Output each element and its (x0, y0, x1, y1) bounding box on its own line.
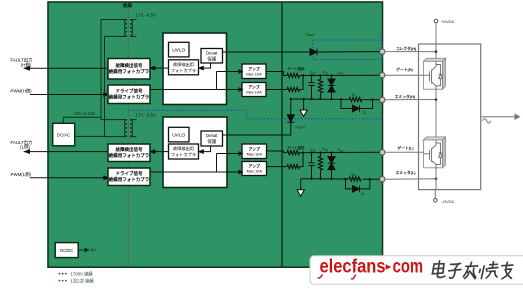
svg-text:15V or 24V: 15V or 24V (75, 111, 96, 116)
wire: DC/AC output right to rail B (75, 135, 105, 137)
capacitor Cge (H) (308, 76, 314, 100)
gate driver U2 (L side) (163, 117, 227, 188)
svg-text:絶縁: 絶縁 (123, 2, 133, 9)
diode DE bypass (H) (341, 99, 373, 112)
watermark swash tails (318, 275, 356, 280)
watermark 电子发烧友 (432, 261, 514, 279)
resistor Rg3 (L) (287, 151, 300, 155)
ground (floating) H (300, 99, 307, 117)
resistor Rge (H) (318, 76, 322, 100)
wire: Q1 emitter to Q2 collector (435, 89, 437, 140)
legend primary-secondary isolation (59, 280, 67, 282)
wire: drive coupler (H) to amplifiers with tee (150, 70, 242, 91)
arrow: DC/DC 9V output (78, 248, 88, 252)
resistor Rg1 (H) (287, 73, 300, 77)
wire: emitter bus (L) (301, 178, 380, 180)
UVLO block (H) (169, 42, 190, 57)
photocoupler PC3 fault isolation (L) (108, 144, 150, 162)
svg-text:ゲート(L): ゲート(L) (397, 145, 414, 150)
IGBT Q2 (L side) with freewheel diode (424, 137, 446, 168)
svg-text:1700V 絶縁: 1700V 絶縁 (71, 270, 94, 276)
diode DE bypass (L) (346, 179, 370, 192)
svg-text:絶縁用フォトカプラ: 絶縁用フォトカプラ (109, 176, 150, 183)
AC sine symbol (483, 119, 491, 123)
DC/AC converter U5 (53, 123, 75, 146)
resistor Rg4 (L) (287, 165, 300, 169)
svg-text:(H側): (H側) (21, 61, 32, 67)
svg-text:エミッタ(L): エミッタ(L) (395, 170, 416, 175)
svg-text:Desat: Desat (206, 50, 218, 55)
wire: amp A2 output (266, 89, 287, 91)
phase output wire with arrow (481, 114, 520, 119)
svg-text:絶縁用フォトカプラ: 絶縁用フォトカプラ (109, 152, 150, 159)
wire: amp A1 output (266, 72, 287, 76)
svg-text:エミッタ(H): エミッタ(H) (395, 94, 416, 99)
resistor Rge (L) (318, 153, 322, 179)
svg-text:(L側): (L側) (20, 144, 30, 150)
zener pair Dge (L) (328, 153, 335, 179)
wire+arrow: fault photocoupler (L) to isolation coupler (150, 150, 168, 153)
+HVDC terminal (434, 19, 438, 61)
primary-secondary isolation dashed line (red) (127, 3, 129, 268)
watermark panel (310, 256, 523, 284)
transformer T2 (L-side isolated supply) (101, 120, 137, 137)
node emitter(L) (380, 177, 385, 182)
green driver-board panel (48, 2, 383, 267)
svg-text:PWM(L側): PWM(L側) (11, 171, 32, 177)
IGBT Q1 (H side) with freewheel diode (424, 58, 446, 89)
diode Ddesat (H) (310, 49, 380, 56)
svg-text:Max 10A: Max 10A (246, 71, 262, 76)
photocoupler PC1 fault isolation (H) (108, 59, 150, 80)
wire: emitter(H) to module (385, 99, 436, 101)
gate driver U1 (H side) (163, 33, 227, 105)
wire+arrow: FAULT(H) output line (25, 67, 109, 70)
svg-text:-HVDC: -HVDC (442, 199, 455, 204)
Desat protection block (H) (201, 49, 223, 64)
svg-text:Desat: Desat (206, 133, 218, 138)
svg-text:コレクタ(H): コレクタ(H) (396, 46, 417, 51)
wire: collector(H) to module (385, 51, 436, 53)
resistor RE (L) (349, 177, 363, 182)
svg-text:Max 10A: Max 10A (246, 90, 262, 95)
fault detect photocoupler block (H) (169, 60, 199, 75)
svg-text:DC/AC: DC/AC (57, 132, 70, 137)
node gate(H) (380, 73, 385, 78)
svg-text:ゲート(H): ゲート(H) (396, 67, 413, 72)
wire+arrow: fault photocoupler (H) to isolation coupler (150, 66, 168, 69)
amplifier A2 (H low) (242, 83, 266, 97)
1700V isolation dashed line (blue) (128, 110, 382, 118)
IGBT module outline (419, 44, 481, 190)
svg-text:ドライブ信号: ドライブ信号 (116, 88, 143, 95)
capacitor Cge (L) (308, 153, 314, 179)
watermark elecfans.com (320, 257, 424, 278)
wire: gate(H) to IGBT (385, 74, 425, 76)
zener pair Dge (H) (328, 76, 335, 100)
svg-text:17V, -6.5V: 17V, -6.5V (136, 112, 156, 117)
junction emitter(H)/phase (435, 98, 438, 101)
svg-text:UVLO: UVLO (172, 47, 185, 53)
wire: emitter bus (H) (291, 98, 380, 101)
UVLO block (L) (169, 127, 190, 142)
wire: T1 primary to T2 primary rail A (100, 20, 102, 120)
node emitter(H) (380, 97, 385, 102)
svg-text:故障検出信号: 故障検出信号 (116, 62, 143, 69)
diode Ddesat (L) (287, 99, 294, 122)
svg-text:保護: 保護 (207, 55, 216, 62)
wire+arrow: PWM(L) input line (30, 176, 108, 179)
svg-text:Max 10A: Max 10A (247, 169, 263, 174)
resistor RE (H) (349, 97, 363, 102)
DC/DC converter U6 (55, 243, 78, 258)
photocoupler PC2 drive isolation (H) (108, 85, 150, 104)
svg-text:ゲート抵抗: ゲート抵抗 (288, 145, 306, 150)
svg-text:elecfans: elecfans (320, 257, 386, 278)
wire: gate resistor junction (L) (300, 153, 304, 167)
amplifier A4 (L low) (242, 162, 267, 176)
wire: T1 primary to T2 primary rail B (104, 36, 106, 136)
wire+arrow: FAULT(L) output line (25, 150, 109, 153)
svg-text:com: com (393, 257, 424, 278)
desat 1700V isolation dashed box (blue) H-side (313, 40, 383, 60)
svg-text:絶縁用フォトカプラ: 絶縁用フォトカプラ (109, 94, 150, 101)
transformer T1 (H-side isolated supply) (101, 20, 137, 37)
svg-text:9V: 9V (91, 248, 96, 253)
wire: Q2 emitter to -HVDC (435, 168, 437, 190)
svg-text:DC/DC: DC/DC (60, 248, 73, 253)
junction +HVDC/collector(H) (435, 50, 438, 53)
node gate(L) (380, 150, 385, 155)
svg-text:ゲート抵抗: ゲート抵抗 (288, 66, 306, 71)
svg-text:1次2次 絶縁: 1次2次 絶縁 (71, 277, 95, 284)
-HVDC terminal (434, 199, 438, 203)
domain separator vertical line (281, 3, 283, 268)
wire: desat sense (H) (223, 51, 311, 53)
wire: gate line to node (L) (303, 151, 380, 153)
wire: gate line to node (H) (303, 74, 380, 76)
amplifier A1 (H high) (242, 64, 266, 79)
amplifier A3 (L high) (242, 144, 267, 159)
wire+arrow: PWM(H) input line (30, 93, 108, 96)
resistor Rg2 (H) (287, 87, 300, 91)
svg-text:保護: 保護 (207, 138, 216, 145)
wire: gate resistor junction (H) (300, 76, 304, 90)
svg-text:17V, -6.5V: 17V, -6.5V (136, 13, 156, 18)
wire: gate(L) to IGBT (385, 151, 425, 153)
Desat protection block (L) (201, 131, 223, 146)
wire: emitter(L) to module (385, 178, 436, 181)
wire: amp A4 output (267, 166, 288, 168)
wire: desat sense (L) (223, 122, 291, 135)
wire: amp A3 output (267, 151, 288, 153)
svg-text:UVLO: UVLO (172, 132, 185, 138)
wire+arrow: Desat(L) to fault photocoupler (199, 146, 211, 153)
junction emitter(L) (435, 177, 438, 180)
wire: drive coupler (L) to amplifiers with tee (150, 152, 242, 174)
node collector(H) (380, 49, 385, 54)
svg-text:絶縁用フォトカプラ: 絶縁用フォトカプラ (109, 68, 150, 75)
svg-text:ドライブ信号: ドライブ信号 (116, 170, 143, 177)
photocoupler PC4 drive isolation (L) (108, 168, 150, 186)
fault detect photocoupler block (L) (169, 144, 199, 159)
wire: DC/AC output top to rail A (63, 117, 101, 123)
svg-text:故障検出信号: 故障検出信号 (116, 146, 143, 153)
wire+arrow: Desat(H) to fault photocoupler (199, 63, 211, 70)
legend 1700V isolation (59, 273, 67, 275)
svg-text:Max 10A: Max 10A (247, 151, 263, 156)
ground (floating) L (297, 179, 304, 197)
svg-text:+HVDC: +HVDC (441, 19, 455, 24)
svg-text:PWM(H側): PWM(H側) (10, 87, 32, 93)
